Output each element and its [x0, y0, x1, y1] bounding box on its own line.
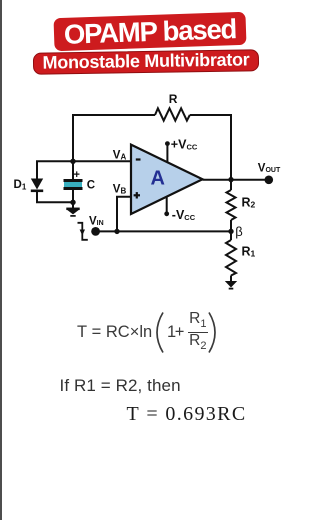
ground under capacitor	[66, 209, 79, 216]
left page edge	[0, 0, 2, 520]
svg-text:β: β	[235, 224, 242, 239]
svg-text:VB: VB	[113, 184, 127, 196]
wire capacitor top	[72, 161, 74, 179]
svg-text:VIN: VIN	[89, 215, 104, 227]
wire diode bottom	[37, 192, 73, 203]
svg-text:VOUT: VOUT	[258, 162, 281, 174]
wire Vcc+	[166, 144, 168, 163]
svg-text:R1: R1	[242, 245, 256, 259]
svg-text:R: R	[169, 92, 178, 106]
wire inverting input	[73, 160, 131, 162]
diode D1	[31, 179, 43, 191]
wire to diode top	[37, 161, 73, 178]
resistor R	[155, 108, 190, 120]
condition text	[60, 376, 181, 396]
node Vin terminal	[91, 227, 100, 236]
node Vout terminal	[265, 176, 274, 185]
svg-text:+: +	[74, 169, 80, 181]
wire Vcc-	[166, 195, 168, 214]
svg-text:C: C	[87, 179, 95, 191]
resistor R2	[227, 190, 236, 220]
node junction VA	[70, 159, 75, 164]
ground arrow under R1	[225, 281, 237, 289]
wire output to R2	[230, 180, 232, 190]
wire R2 to beta node	[230, 220, 232, 240]
wire non-inverting riser	[117, 197, 131, 232]
wire top left	[73, 115, 155, 161]
svg-text:+VCC: +VCC	[171, 137, 198, 151]
svg-text:A: A	[151, 168, 165, 190]
wire capacitor bottom	[72, 190, 74, 203]
op-amp U1	[131, 145, 203, 214]
node junction output	[228, 177, 233, 182]
node Vcc- dot	[164, 211, 169, 216]
wire feedback to Vin	[96, 230, 231, 232]
node junction cap bottom	[70, 200, 75, 205]
formula T = RC x ln(1 + R1/R2)	[77, 311, 217, 355]
wire output	[203, 179, 267, 181]
trigger pulse symbol	[78, 223, 88, 240]
resistor R1	[226, 240, 236, 276]
node junction VB riser	[114, 229, 119, 234]
wire top right	[190, 115, 231, 180]
svg-text:D1: D1	[14, 179, 27, 192]
svg-text:R2: R2	[242, 196, 256, 210]
node Vcc+ dot	[165, 141, 170, 146]
title banner: Monostable Multivibrator	[33, 49, 259, 75]
result formula	[127, 403, 247, 426]
wire R1 to arrow	[230, 276, 232, 282]
wire ground stub	[72, 202, 74, 208]
node beta	[228, 229, 233, 234]
svg-text:VA: VA	[113, 149, 127, 161]
capacitor C	[64, 181, 83, 189]
trigger pulse arrowhead	[80, 230, 85, 236]
title banner: OPAMP based	[54, 12, 247, 51]
svg-text:-VCC: -VCC	[172, 208, 196, 222]
